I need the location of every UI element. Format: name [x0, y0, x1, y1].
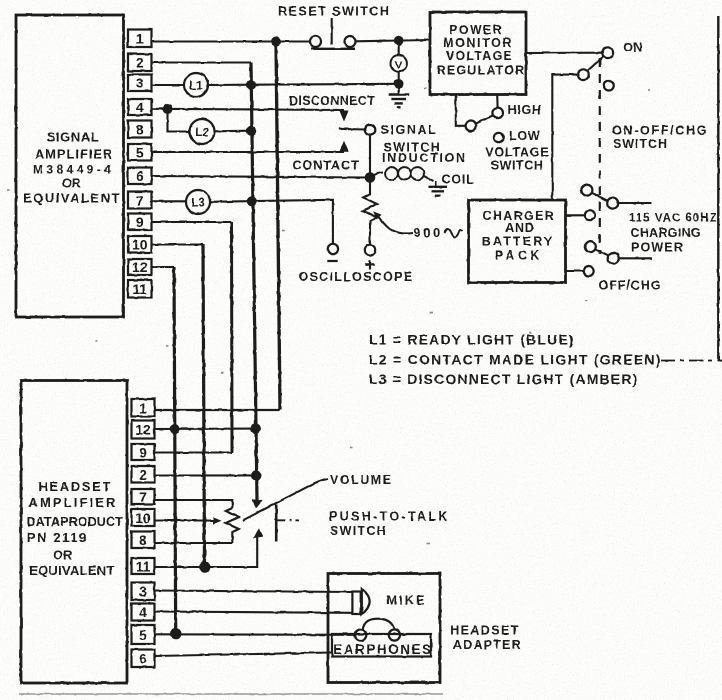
pin 11 (signal amp): [128, 280, 152, 298]
wire bus B (pin2 vertical bus): [251, 63, 257, 501]
wire headset pin9 row: [155, 451, 233, 453]
pin 2 (headset amp): [132, 466, 155, 483]
ground (coil): [429, 181, 448, 196]
charging switch lower blade: [585, 241, 619, 264]
pin 4 (signal amp): [128, 99, 152, 115]
svg-text:SWITCH: SWITCH: [330, 524, 387, 538]
charging switch upper blade: [581, 185, 618, 209]
earphones label box: [332, 634, 433, 657]
reset switch S1: [278, 5, 390, 49]
wire L3 row to oscilloscope minus: [210, 200, 333, 244]
lamp L2: [190, 119, 215, 144]
svg-text:OR: OR: [53, 549, 72, 563]
wiper arrow: [213, 517, 222, 524]
svg-text:L2 = CONTACT MADE LIGHT (GREEN: L2 = CONTACT MADE LIGHT (GREEN): [369, 352, 662, 368]
push-to-talk dash-dot stub: [278, 519, 300, 521]
ground (under voltmeter): [388, 84, 409, 108]
wire pin5 row to contact arrow: [152, 151, 345, 153]
svg-text:11: 11: [132, 281, 147, 297]
signal switch contact circle: [365, 125, 376, 136]
volume potentiometer R (zigzag): [226, 508, 239, 543]
svg-text:6: 6: [139, 651, 147, 667]
svg-text:PN 2119: PN 2119: [27, 530, 88, 545]
svg-text:8: 8: [136, 122, 144, 138]
pin 8 (signal amp): [128, 121, 152, 138]
pin 12 (headset amp): [132, 421, 155, 439]
pin 3 (headset amp): [132, 583, 155, 601]
contact arrow: [339, 141, 348, 152]
pin 8 (headset amp): [132, 532, 155, 549]
svg-text:AMPLIFIER: AMPLIFIER: [29, 495, 118, 510]
scan artifacts (decorative): [7, 88, 650, 694]
svg-text:OFF/CHG: OFF/CHG: [599, 279, 662, 293]
wire headset pin6 row to earphones box: [155, 653, 333, 657]
pin 9 (signal amp): [128, 214, 152, 231]
svg-text:RESET SWITCH: RESET SWITCH: [278, 5, 390, 19]
pin 11 (headset amp): [132, 558, 155, 575]
node junction pin4 / L2 tap: [163, 104, 173, 114]
wire headset pin12 row: [155, 428, 256, 430]
labels HIGH / LOW VOLTAGE SWITCH: [485, 103, 549, 172]
pin 9 (headset amp): [132, 444, 155, 461]
wire headset pin10 row (wiper): [155, 519, 214, 521]
OFF contact circle (unconnected): [604, 81, 614, 91]
svg-text:L2: L2: [195, 127, 208, 139]
svg-text:L1: L1: [189, 81, 203, 93]
wire L1 to ground node: [208, 84, 399, 85]
svg-text:EARPHONES: EARPHONES: [333, 642, 432, 657]
node junction coil/switch/pot: [365, 172, 376, 183]
lamp L3: [186, 190, 210, 214]
svg-text:2: 2: [139, 467, 147, 483]
wire L2 tap down: [168, 109, 190, 132]
svg-text:M38449-4: M38449-4: [33, 163, 114, 177]
svg-text:AND: AND: [505, 221, 534, 235]
power monitor voltage regulator box: [430, 12, 526, 95]
svg-text:OR: OR: [62, 177, 81, 191]
wire headset pin3 row to mike: [155, 591, 353, 593]
svg-text:ADAPTER: ADAPTER: [453, 638, 522, 652]
node junction pin12 row / bus E: [170, 424, 180, 434]
charger upper terminal circle: [585, 210, 595, 220]
wire signal switch to junction: [369, 135, 371, 177]
svg-text:REGULATOR: REGULATOR: [437, 64, 526, 78]
wire charging contact right (115VAC): [619, 202, 652, 204]
wire charging contact right (lower): [619, 257, 652, 259]
svg-text:SWITCH: SWITCH: [491, 158, 544, 172]
pin 3 (signal amp): [128, 75, 152, 92]
svg-text:DATAPRODUCT: DATAPRODUCT: [27, 515, 124, 529]
node junction pin12 row / bus B: [251, 423, 261, 433]
svg-text:HIGH: HIGH: [508, 103, 542, 117]
svg-text:CHARGING: CHARGING: [631, 226, 701, 240]
svg-text:6: 6: [136, 168, 144, 184]
wire bus E (pin12 vertical): [174, 267, 176, 634]
svg-text:5: 5: [136, 145, 144, 161]
pin 10 (signal amp): [128, 236, 152, 253]
svg-text:2: 2: [136, 55, 144, 71]
svg-text:INDUCTION: INDUCTION: [382, 151, 467, 165]
signal amplifier U1 box: [16, 15, 124, 317]
node junction L2 / bus B: [246, 126, 256, 136]
pin 6 (headset amp): [132, 650, 155, 668]
pin 5 (signal amp): [128, 144, 152, 161]
headset amplifier U2 box: [21, 381, 127, 684]
svg-text:1: 1: [136, 31, 144, 47]
svg-text:3: 3: [136, 75, 144, 91]
svg-text:SWITCH: SWITCH: [613, 137, 668, 151]
label PUSH-TO-TALK SWITCH: [329, 510, 450, 538]
pin 7 (headset amp): [132, 489, 155, 505]
signal switch blade: [339, 128, 365, 131]
wire pin4 row to disconnect contact: [152, 109, 345, 110]
wire headset pin8 row (pot bottom): [155, 542, 233, 544]
wire pin2 to vertical bus B: [152, 61, 252, 63]
pin 4 (headset amp): [132, 604, 155, 621]
svg-text:ON-OFF/CHG: ON-OFF/CHG: [612, 123, 708, 137]
svg-text:10: 10: [135, 510, 151, 526]
high/low voltage switch: [456, 95, 504, 143]
svg-text:COIL: COIL: [442, 172, 475, 186]
node junction L3 / bus B: [247, 196, 257, 206]
potentiometer 900 ohm: [363, 183, 377, 245]
svg-text:115 VAC 60HZ: 115 VAC 60HZ: [629, 213, 718, 225]
wire bus C (pin9 vertical): [230, 222, 234, 453]
volume leader line: [243, 479, 328, 521]
svg-text:L3: L3: [191, 198, 204, 210]
ON contact circle: [602, 47, 613, 58]
svg-text:LOW: LOW: [509, 129, 540, 143]
node junction voltmeter tap: [394, 36, 404, 46]
svg-text:4: 4: [139, 605, 147, 621]
wire pin9 to bus C: [152, 221, 232, 223]
svg-text:7: 7: [136, 193, 144, 209]
disconnect contact arrow: [339, 111, 348, 122]
svg-text:12: 12: [135, 422, 151, 438]
wire regulator output to ON contact: [526, 52, 602, 54]
push-to-talk lower contact arrow: [254, 528, 264, 538]
svg-text:PUSH-TO-TALK: PUSH-TO-TALK: [329, 510, 450, 524]
wire pin10 to bus D: [152, 243, 204, 245]
wire pin11 row to lower contact: [155, 536, 258, 567]
wire pin1 to reset switch: [152, 40, 311, 42]
svg-text:5: 5: [139, 627, 147, 643]
wire L2 to bus B: [215, 130, 252, 133]
svg-text:V: V: [395, 59, 403, 71]
wire reset switch to regulator: [356, 40, 431, 41]
pot wiper arrow and 900 ohm label: [373, 211, 462, 240]
wire charger to contact (lower): [566, 270, 584, 272]
wire blade to charger top: [552, 75, 578, 200]
svg-text:900: 900: [414, 225, 443, 240]
node junction voltmeter/pin3 row: [394, 79, 404, 89]
svg-text:L3 = DISCONNECT LIGHT (AMBER): L3 = DISCONNECT LIGHT (AMBER): [369, 371, 639, 387]
svg-text:VOLTAGE: VOLTAGE: [446, 49, 513, 63]
pin 6 (signal amp): [128, 168, 152, 185]
inductor coil: [370, 173, 383, 178]
wire bus D (pin10 vertical): [203, 245, 205, 568]
pin 10 (headset amp): [132, 509, 155, 526]
svg-text:AMPLIFIER: AMPLIFIER: [35, 147, 113, 162]
svg-text:L1 = READY LIGHT (BLUE): L1 = READY LIGHT (BLUE): [369, 332, 575, 348]
charger lower terminal circle: [584, 266, 594, 276]
svg-text:8: 8: [139, 532, 147, 548]
wire headset pin4 row to mike: [155, 612, 353, 613]
svg-text:SIGNAL: SIGNAL: [47, 130, 100, 145]
wire pin7 row through L3: [152, 200, 187, 202]
svg-text:SIGNAL: SIGNAL: [381, 123, 438, 137]
earphones symbol: [355, 619, 406, 641]
oscilloscope minus terminal: [327, 244, 338, 261]
svg-text:POWER: POWER: [449, 23, 502, 37]
node junction pin11 row / bus D: [199, 562, 210, 573]
wire right edge vertical: [717, 16, 719, 360]
svg-text:9: 9: [139, 445, 147, 461]
node junction pin1/bus: [271, 37, 281, 47]
pin 1 (signal amp): [128, 30, 152, 48]
svg-text:OSCILLOSCOPE: OSCILLOSCOPE: [299, 270, 414, 284]
on-off switch blade (top): [578, 56, 604, 80]
wire bus A (pin1 vertical, to headset pin1): [276, 42, 280, 411]
headset adapter box: [328, 574, 440, 683]
pin 1 (headset amp): [132, 399, 155, 417]
dashed mechanical link (ON-OFF/CHG switch): [599, 58, 601, 254]
node junction pin5 row / bus E: [171, 628, 182, 639]
svg-text:7: 7: [139, 489, 147, 505]
label HEADSET ADAPTER: [450, 624, 522, 653]
svg-text:ON: ON: [623, 41, 642, 55]
svg-text:BATTERY: BATTERY: [482, 235, 555, 249]
svg-text:EQUIVALENT: EQUIVALENT: [23, 191, 121, 206]
svg-text:MIKE: MIKE: [387, 594, 427, 608]
svg-text:EQUIVALENT: EQUIVALENT: [29, 563, 115, 578]
wire dash-dot from legend L2 to right edge: [661, 360, 722, 362]
svg-text:DISCONNECT: DISCONNECT: [289, 94, 375, 108]
push-to-talk upper contact arrow: [252, 499, 263, 509]
svg-text:4: 4: [136, 99, 144, 115]
oscilloscope plus terminal: [365, 245, 375, 270]
svg-text:9: 9: [136, 214, 144, 230]
wire headset pin2 row: [155, 474, 257, 476]
svg-text:POWER: POWER: [631, 241, 684, 255]
svg-text:12: 12: [132, 259, 148, 275]
pin 5 (headset amp): [132, 625, 155, 644]
svg-text:11: 11: [136, 559, 151, 575]
push-to-talk bar: [275, 505, 278, 542]
node junction L1 row / bus B: [246, 80, 256, 90]
node junction pin2 row / bus B: [251, 470, 261, 480]
svg-text:3: 3: [139, 584, 147, 600]
svg-text:10: 10: [132, 237, 148, 253]
voltmeter V1: [391, 45, 407, 84]
wire headset pin5 row to earphones: [155, 633, 356, 636]
svg-text:1: 1: [139, 400, 147, 416]
svg-text:CONTACT: CONTACT: [293, 158, 360, 172]
pin 7 (signal amp): [128, 192, 152, 209]
wire pin3 row through L1 to voltmeter ground: [152, 84, 185, 86]
lamp L1: [184, 73, 208, 97]
charger and battery pack box: [469, 200, 566, 283]
label SIGNAL SWITCH INDUCTION: [381, 123, 467, 165]
svg-text:HEADSET: HEADSET: [38, 479, 112, 494]
svg-text:VOLUME: VOLUME: [330, 473, 392, 487]
wire headset pin7 row to volume pot top: [155, 500, 233, 508]
pin 12 (signal amp): [128, 259, 152, 275]
labels 115 VAC 60HZ CHARGING POWER: [629, 213, 718, 255]
pin 2 (signal amp): [128, 54, 152, 71]
wire charger to contact (upper): [566, 214, 585, 216]
svg-text:MONITOR: MONITOR: [443, 36, 513, 50]
label ON-OFF/CHG SWITCH: [612, 123, 708, 151]
wire pin6 row to coil junction: [152, 176, 371, 178]
microphone symbol: [352, 589, 369, 615]
wire pin12 to bus E: [152, 266, 175, 268]
svg-text:PACK: PACK: [495, 249, 543, 263]
svg-text:HEADSET: HEADSET: [450, 624, 520, 638]
